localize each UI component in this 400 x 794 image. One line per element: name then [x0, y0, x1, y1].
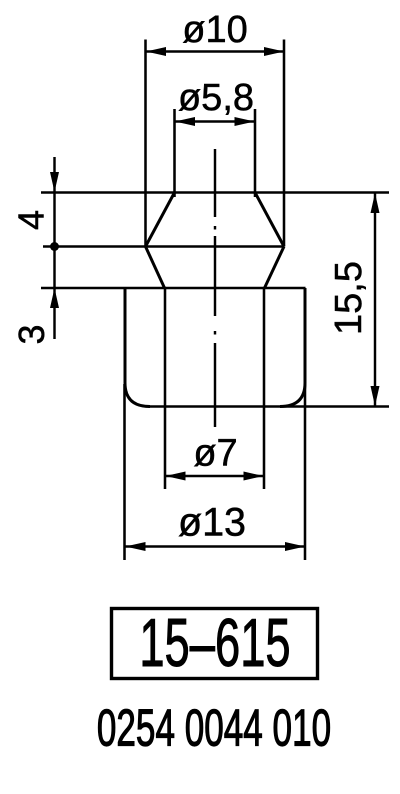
- wire dim line dia13: [126, 545, 306, 547]
- node part number box: [112, 609, 318, 679]
- wire dia13 extension left: [123, 384, 126, 560]
- wire extension line dia5.8 right: [254, 109, 257, 197]
- node hexagon lower-right slant: [265, 247, 285, 289]
- svg-text:ø10: ø10: [182, 9, 247, 51]
- node cup right wall and corner: [280, 288, 305, 407]
- wire left dimension line for 4 and 3: [53, 157, 55, 339]
- svg-text:ø13: ø13: [178, 501, 246, 545]
- wire inner hole wall right / dia7 extension: [263, 288, 266, 489]
- node hexagon lower-left slant: [146, 247, 165, 289]
- svg-text:ø7: ø7: [193, 433, 237, 475]
- svg-text:15,5: 15,5: [328, 261, 370, 335]
- wire top reference line y=192: [41, 191, 389, 194]
- svg-text:3: 3: [11, 324, 52, 344]
- node center line: [214, 149, 216, 427]
- wire dim line dia7: [166, 475, 264, 477]
- wire widest reference line y=246.5: [43, 245, 284, 248]
- svg-text:ø5,8: ø5,8: [178, 77, 254, 119]
- node cup left wall and corner: [125, 288, 150, 407]
- wire cup top line y=288: [41, 287, 306, 290]
- node hexagon upper-left slant: [146, 193, 175, 247]
- svg-text:4: 4: [11, 210, 52, 230]
- wire extension line dia10 right: [283, 40, 286, 247]
- svg-text:0254 0044 010: 0254 0044 010: [97, 700, 331, 757]
- wire inner hole wall left / dia7 extension: [164, 288, 167, 489]
- svg-text:15–615: 15–615: [139, 606, 290, 681]
- node hexagon upper-right slant: [255, 193, 284, 247]
- wire dim line dia10: [146, 50, 284, 52]
- node dot at 4/3 boundary: [50, 242, 59, 251]
- wire right dimension line for 15.5: [374, 193, 376, 407]
- wire extension line dia5.8 left: [173, 109, 176, 197]
- wire cup bottom line y=406.5: [148, 405, 389, 408]
- wire dim line dia5.8: [175, 120, 255, 122]
- wire extension line dia10 left: [144, 40, 147, 247]
- wire dia13 extension right: [304, 384, 307, 560]
